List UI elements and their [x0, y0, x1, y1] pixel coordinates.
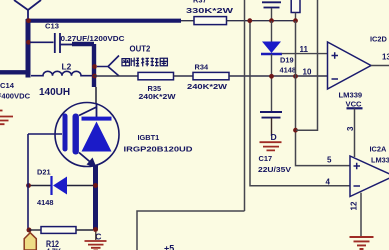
connector OUT2: [97, 56, 119, 77]
svg-text:L2: L2: [62, 62, 72, 72]
IGBT channel bar: [73, 114, 79, 155]
junction dot coil node OUT2 tap: [92, 64, 97, 69]
diode D19: [271, 21, 273, 42]
svg-text:3: 3: [346, 126, 355, 131]
svg-text:22U/35V: 22U/35V: [258, 165, 291, 174]
junction dot wireB x295: [293, 74, 298, 79]
ground C17: [260, 142, 282, 150]
diode D21: [29, 185, 51, 187]
svg-text:12: 12: [350, 201, 359, 210]
wire gate left vertical: [27, 134, 29, 230]
wire thick left bus: [26, 19, 31, 78]
wire vertical feed x244.5: [244, 0, 246, 211]
junction dot emitter R12: [93, 227, 98, 232]
svg-text:C14: C14: [0, 81, 15, 90]
ground IC2A: [350, 237, 374, 249]
svg-text:IRGP20B120UD: IRGP20B120UD: [124, 145, 194, 154]
svg-text:D21: D21: [37, 168, 51, 177]
power port pentagon: [24, 233, 36, 250]
svg-text:13: 13: [382, 53, 389, 62]
capacitor C17: [260, 112, 282, 118]
svg-text:VCC: VCC: [346, 100, 363, 109]
inductor L2: [31, 71, 92, 75]
svg-text:140UH: 140UH: [39, 87, 70, 98]
connector OUT1: [14, 0, 41, 20]
IGBT emitter arrow: [79, 153, 92, 164]
svg-text:4: 4: [326, 178, 331, 187]
wire R12 row: [29, 229, 41, 231]
IGBT body diode cathode bar: [82, 117, 112, 121]
resistor R12: [41, 227, 76, 234]
junction dot top x295: [293, 18, 298, 23]
svg-text:11: 11: [300, 45, 309, 54]
IGBT gate wire: [28, 133, 62, 135]
svg-text:R34: R34: [195, 63, 209, 72]
svg-text:LM33: LM33: [371, 156, 389, 165]
junction dot D21 left: [26, 183, 31, 188]
svg-text:+5: +5: [164, 244, 174, 250]
IGBT gate bar: [63, 114, 68, 152]
svg-text:LM339: LM339: [339, 91, 363, 100]
junction dot top x250: [247, 18, 252, 23]
svg-text:240K*2W: 240K*2W: [139, 92, 176, 101]
resistor R37: [194, 17, 227, 25]
resistor top edge: [291, 0, 300, 13]
svg-text:IGBT1: IGBT1: [138, 133, 160, 142]
resistor R35: [138, 72, 174, 79]
svg-text:IC2D: IC2D: [370, 35, 388, 44]
svg-text:C17: C17: [259, 154, 273, 163]
wire top right segment: [227, 20, 296, 22]
wire pin12: [360, 193, 362, 236]
svg-text:R37: R37: [193, 0, 207, 5]
IGBT collector link: [79, 103, 97, 117]
wire IC2D out: [371, 65, 389, 67]
wire thick top bus: [26, 19, 181, 23]
wire R37 left lead: [181, 20, 194, 22]
capacitor top edge: [262, 2, 281, 7]
wire +5 path: [137, 211, 245, 250]
ground emitter: [95, 232, 97, 240]
IGBT Q1 circle: [55, 103, 119, 167]
wire B left segment: [94, 75, 138, 77]
svg-text:240K*2W: 240K*2W: [187, 82, 227, 91]
wire vertical pin4 x250: [250, 21, 350, 186]
svg-text:4148: 4148: [37, 198, 53, 207]
svg-text:4148: 4148: [280, 66, 296, 75]
wire vertical x295: [296, 21, 351, 166]
wire B right segment: [229, 75, 328, 77]
ground C14 clipped: [0, 111, 13, 125]
wire A pin11: [282, 53, 328, 55]
svg-text:10: 10: [303, 68, 312, 77]
junction dot emitter D21: [93, 183, 98, 188]
svg-text:D: D: [271, 132, 277, 142]
svg-text:330K*2W: 330K*2W: [186, 6, 234, 15]
svg-text:D19: D19: [280, 56, 294, 65]
wire between R35 R34: [174, 75, 194, 77]
svg-text:OUT2: OUT2: [130, 45, 151, 54]
svg-text:0.27UF/1200VDC: 0.27UF/1200VDC: [61, 34, 126, 43]
svg-text:5UF400VDC: 5UF400VDC: [0, 91, 31, 100]
junction dot bus top: [26, 18, 31, 23]
junction dot C13 tap: [26, 40, 31, 45]
resistor R34: [193, 72, 229, 79]
wire collector: [95, 87, 97, 103]
svg-text:IC2A: IC2A: [370, 145, 388, 154]
wire thick C13 to collector node: [60, 44, 74, 46]
svg-text:C13: C13: [45, 22, 59, 31]
junction dot top x271: [269, 18, 274, 23]
junction dot coil node: [92, 74, 97, 79]
IGBT body diode: [82, 122, 112, 152]
junction dot wireB x271: [269, 74, 274, 79]
junction dot R12 node: [27, 228, 32, 233]
capacitor C13: [30, 33, 60, 53]
wire thick C14 stub: [0, 70, 30, 74]
op-amp IC2D: [328, 42, 372, 89]
junction dot x295 mid: [293, 128, 298, 133]
svg-text:5: 5: [327, 156, 332, 165]
wire D19 cathode down to C17: [271, 54, 273, 112]
label coil chinese note: [122, 58, 167, 67]
op-amp IC2A: [350, 156, 389, 197]
wire thick emitter bar: [93, 165, 98, 230]
wire vertical x317: [296, 0, 318, 130]
